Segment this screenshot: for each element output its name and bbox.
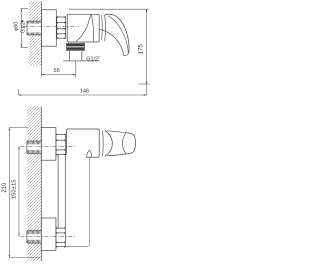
svg-text:φ60: φ60 [13, 22, 19, 31]
svg-text:G1/2″: G1/2″ [86, 57, 100, 63]
svg-text:150±15: 150±15 [12, 179, 18, 199]
svg-text:146: 146 [80, 88, 89, 94]
svg-text:56: 56 [54, 68, 60, 74]
svg-text:G1/2″: G1/2″ [21, 20, 27, 33]
svg-text:175: 175 [137, 44, 144, 55]
svg-text:210: 210 [2, 182, 8, 193]
